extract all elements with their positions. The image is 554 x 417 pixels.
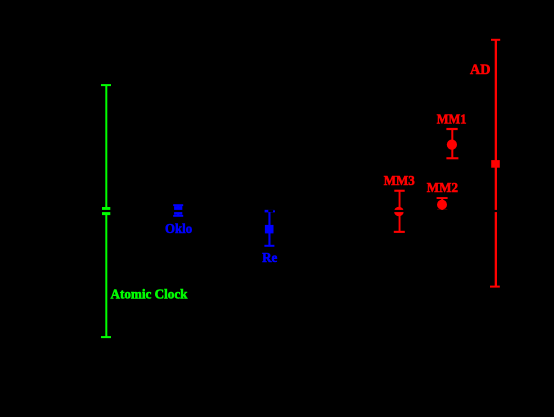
- svg-text:AD: AD: [470, 62, 490, 78]
- error bar: Oklo (blue): [173, 204, 183, 217]
- svg-text:MM1: MM1: [437, 113, 467, 128]
- mm3 bottom cap: [394, 231, 405, 233]
- ad bottom cap: [490, 286, 500, 288]
- mm2 bottom cap: [437, 210, 447, 212]
- svg-text:MM3: MM3: [384, 174, 415, 189]
- wire: mm1 vertical line: [451, 129, 453, 158]
- error bar: MM1 (red): [446, 128, 458, 159]
- mm1 bottom cap: [446, 157, 458, 159]
- marker: green square: [102, 207, 110, 215]
- error bar: MM2 (red): [437, 197, 448, 211]
- marker: ad square: [491, 160, 500, 168]
- marker: mm2 circle: [437, 200, 447, 210]
- ad top cap: [491, 39, 500, 41]
- svg-text:Oklo: Oklo: [165, 222, 192, 237]
- error bar: Re (blue): [264, 210, 274, 247]
- green bottom cap: [101, 336, 111, 338]
- wire: green vertical line: [105, 85, 107, 337]
- re bottom cap: [264, 245, 274, 247]
- oklo top cap: [173, 204, 183, 206]
- error bar: Atomic Clock (green): [101, 84, 111, 338]
- svg-text:Atomic Clock: Atomic Clock: [111, 288, 188, 303]
- re top cap: [265, 210, 275, 212]
- zero line (black, drawn on top, cuts through markers): [60, 210, 530, 212]
- re top cap visible fragments over zero line: [265, 210, 269, 212]
- error bar: MM3 (red): [394, 190, 405, 233]
- green top cap: [101, 84, 111, 86]
- marker: mm3 circle: [394, 207, 404, 217]
- mm1 top cap: [446, 128, 457, 130]
- wire: ad vertical line: [495, 40, 497, 287]
- wire: oklo vertical line: [177, 205, 179, 217]
- mm3 top cap: [394, 190, 404, 192]
- wire: mm2 vertical line: [441, 198, 443, 211]
- wire: mm3 vertical line: [399, 191, 401, 232]
- wire: re vertical line: [268, 211, 270, 246]
- marker: re square: [265, 225, 274, 234]
- mm2 top cap: [437, 197, 448, 199]
- error bar: AD (red): [490, 39, 500, 288]
- marker: oklo square: [174, 206, 182, 215]
- oklo bottom cap: [173, 215, 183, 217]
- svg-text:MM2: MM2: [427, 181, 458, 196]
- marker: mm1 circle: [447, 140, 457, 150]
- svg-text:Re: Re: [262, 251, 277, 266]
